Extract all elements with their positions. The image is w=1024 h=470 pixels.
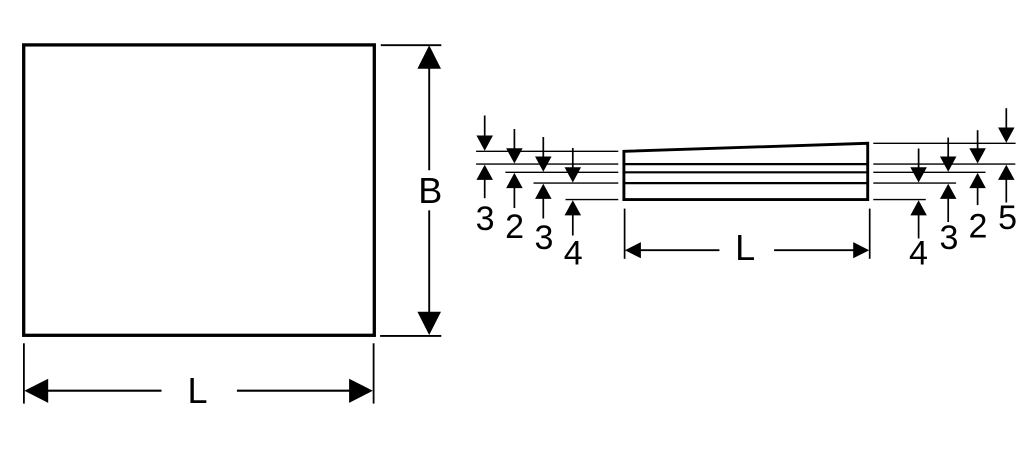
extension line bottom (B) (380, 335, 441, 337)
svg-text:L: L (735, 227, 755, 268)
dim column 2 right: arrowheads (969, 148, 986, 163)
plate layer line 3 (624, 182, 868, 184)
reference line right level B (873, 163, 1015, 165)
dimension line L plan (two segments) (47, 390, 162, 392)
svg-text:3: 3 (940, 219, 959, 257)
svg-text:5: 5 (998, 199, 1017, 237)
reference line right level C (873, 171, 985, 173)
reference line right level A (873, 142, 1015, 144)
plate layer line 1 (624, 163, 868, 165)
dim column 4 left: shafts (572, 148, 574, 168)
svg-text:3: 3 (476, 200, 495, 238)
reference line left level C (505, 171, 618, 173)
extension line right (L, side view) (869, 209, 871, 259)
arrowhead B bottom (417, 312, 441, 335)
plate layer line 2 (624, 171, 868, 173)
reference line left level D (534, 182, 619, 184)
reference line right level D (873, 182, 956, 184)
dim column 3 right: arrowheads (940, 157, 957, 172)
dim column 2 left: arrowheads (506, 148, 523, 163)
dim column 4 right: arrowheads (910, 167, 927, 182)
extension line left (L, side view) (624, 209, 626, 259)
svg-text:L: L (187, 370, 207, 411)
reference line left level E (566, 199, 619, 201)
svg-text:B: B (418, 170, 442, 211)
svg-text:2: 2 (969, 207, 988, 245)
svg-text:4: 4 (909, 235, 928, 273)
reference line left level 1 (476, 150, 618, 152)
reference line right level E (873, 199, 926, 201)
dim column 3b left: arrowheads (535, 157, 552, 172)
arrowhead L plan right (349, 379, 373, 403)
dim column 3 left: arrowheads (476, 136, 493, 151)
dim column 5 right: arrowheads (998, 128, 1015, 143)
square plate outline (plan view) (24, 45, 375, 335)
svg-text:3: 3 (535, 219, 554, 257)
dim column 2 right: shafts (977, 130, 979, 149)
dim column 4 left: arrowheads (565, 167, 582, 182)
arrowhead L side left (625, 242, 641, 258)
arrowhead B top (417, 45, 441, 68)
dim column 3b left: shafts (542, 137, 544, 158)
svg-text:2: 2 (505, 208, 524, 246)
extension line top (B) (381, 44, 442, 46)
dim column 3 right: shafts (947, 138, 949, 158)
dim column 4 right: shafts (918, 149, 920, 169)
dim column 3 left: shafts (484, 116, 486, 137)
dimension line B (two segments) (428, 67, 430, 171)
extension line left (L, plan) (23, 343, 25, 403)
extension line right (L, plan) (373, 343, 375, 403)
tapered plate outline (side view) (624, 143, 868, 199)
reference line left level B (476, 163, 618, 165)
dim column 2 left: shafts (513, 129, 515, 149)
arrowhead L side right (853, 242, 869, 258)
dimension line L side (two segments) (638, 249, 720, 251)
arrowhead L plan left (24, 379, 48, 403)
svg-text:4: 4 (564, 235, 583, 273)
dim column 5 right: shafts (1005, 108, 1007, 128)
